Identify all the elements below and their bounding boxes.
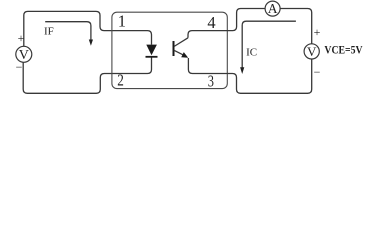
svg-text:+: + <box>18 31 25 45</box>
svg-text:IF: IF <box>44 26 54 38</box>
wire: LED cathode via pin 2 and left loop bottom back to V1 bottom <box>23 57 151 93</box>
svg-text:A: A <box>268 1 278 16</box>
svg-text:−: − <box>16 60 23 74</box>
wire: V2 bottom via right loop bottom to pin 3 / emitter <box>188 58 311 93</box>
voltage source V1 (left) <box>16 46 32 63</box>
svg-text:IC: IC <box>246 46 257 58</box>
svg-text:+: + <box>314 25 321 39</box>
svg-text:3: 3 <box>208 71 214 90</box>
wire: ammeter right terminal to V2 top <box>280 9 312 44</box>
voltage source V2 (right, VCE) <box>304 44 319 59</box>
phototransistor Q1 <box>174 38 189 58</box>
LED D1 (emitter diode) <box>146 45 158 57</box>
svg-text:1: 1 <box>118 12 126 31</box>
svg-text:VCE=5V: VCE=5V <box>324 43 362 57</box>
svg-text:−: − <box>314 65 321 79</box>
ammeter A1 <box>265 1 280 16</box>
optocoupler U1 package <box>112 12 227 88</box>
wire: collector / pin 4 up to ammeter left terminal <box>188 9 265 38</box>
wire: left loop from V1 top via top edge into pin 1 / LED anode <box>24 11 152 46</box>
current arrow IC <box>240 21 296 74</box>
current arrow IF <box>45 22 93 46</box>
svg-text:2: 2 <box>117 71 124 90</box>
svg-text:V: V <box>307 44 317 59</box>
svg-text:4: 4 <box>207 13 215 32</box>
